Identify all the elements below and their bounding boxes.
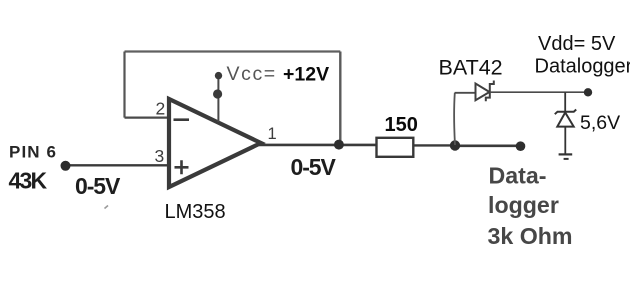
svg-text:Data-: Data- (489, 163, 547, 189)
diode D1 BAT42 (476, 81, 494, 102)
wire input (66, 164, 171, 166)
wire output (259, 144, 377, 147)
datalogger terminal node (516, 141, 526, 151)
wire to diode anode (455, 92, 476, 94)
Vdd terminal node (584, 88, 592, 96)
svg-text:2: 2 (156, 99, 166, 119)
svg-text:5,6V: 5,6V (580, 112, 620, 134)
wire feedback into pin 2 (125, 116, 171, 118)
svg-text:43K: 43K (9, 168, 48, 194)
wire zener branch (564, 92, 566, 111)
wire resistor to node (413, 144, 455, 146)
svg-text:logger: logger (488, 192, 559, 218)
svg-text:3k Ohm: 3k Ohm (488, 223, 573, 249)
svg-text:0-5V: 0-5V (291, 154, 337, 180)
resistor R1 150 (377, 138, 414, 157)
svg-text:PIN 6: PIN 6 (9, 143, 57, 162)
svg-text:150: 150 (385, 114, 418, 136)
svg-text:Vcc=: Vcc= (227, 63, 277, 85)
output junction node (334, 140, 344, 150)
ground (559, 154, 573, 159)
wire diode cathode to Vdd terminal (490, 91, 588, 93)
wire node to datalogger terminal (455, 145, 521, 148)
svg-text:1: 1 (268, 125, 277, 143)
wire feedback left vertical (123, 52, 125, 118)
svg-text:3: 3 (155, 146, 165, 166)
Vcc wire (217, 76, 219, 122)
svg-text:+12V: +12V (283, 64, 329, 86)
zener diode D2 5,6V (555, 110, 576, 127)
wire feedback top (125, 50, 341, 52)
wire feedback right vertical (339, 52, 341, 145)
svg-text:LM358: LM358 (165, 201, 226, 223)
svg-text:Datalogger: Datalogger (535, 56, 630, 78)
svg-text:BAT42: BAT42 (439, 56, 503, 80)
op-amp U1 LM358 (169, 99, 261, 187)
Vcc terminal node (215, 72, 222, 79)
svg-text:Vdd= 5V: Vdd= 5V (538, 33, 616, 55)
scan speck (105, 206, 109, 209)
svg-text:0-5V: 0-5V (75, 173, 121, 199)
Vcc junction node (213, 89, 222, 98)
resistor output junction node (450, 140, 460, 150)
wire BAT42 branch vertical (453, 93, 456, 145)
wire zener to ground (564, 127, 566, 154)
input node PIN 6 (61, 161, 71, 171)
